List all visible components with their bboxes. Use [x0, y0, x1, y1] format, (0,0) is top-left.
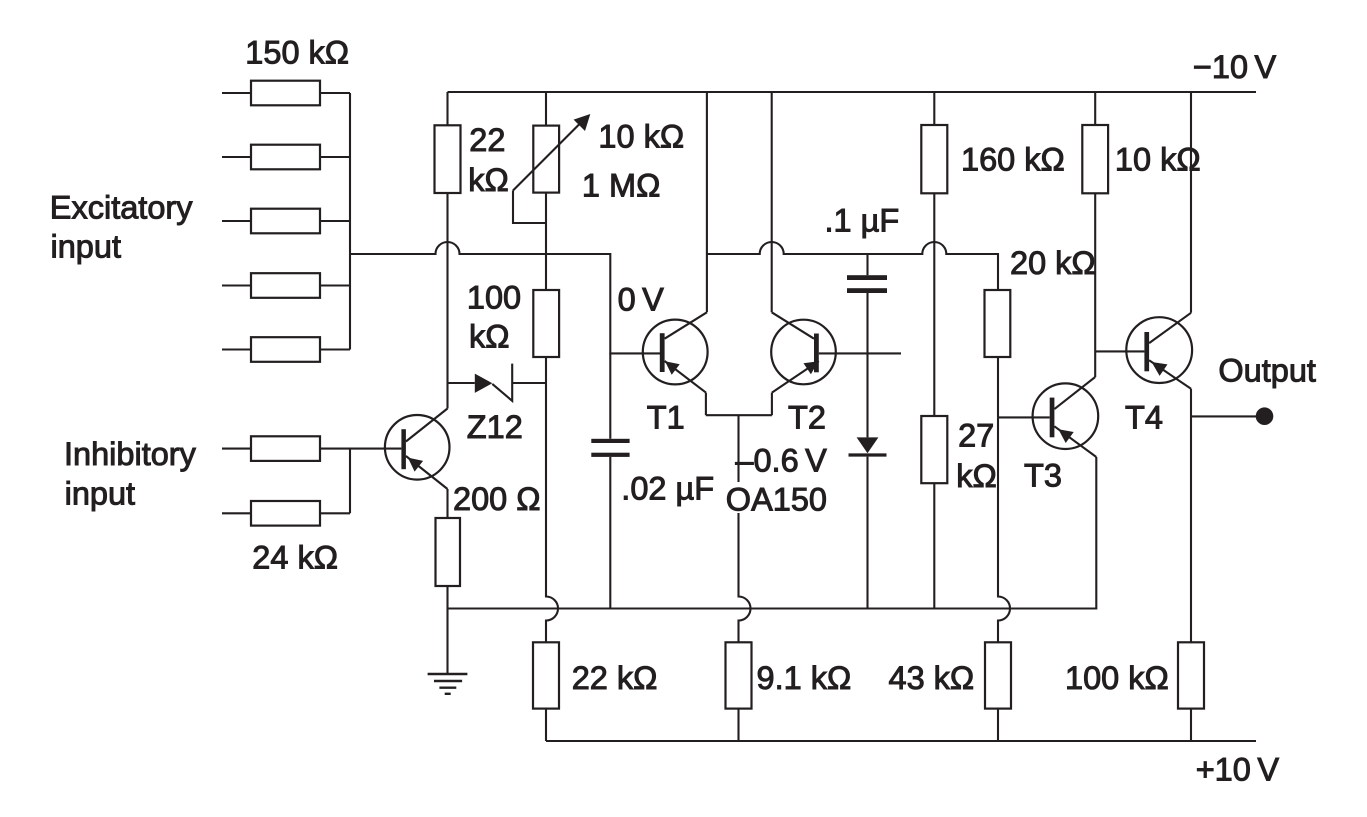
wire: rail to 1M pot: [545, 92, 547, 126]
diode OA150: [849, 437, 887, 455]
svg-text:43 kΩ: 43 kΩ: [889, 660, 975, 696]
wire: T4 base line: [1095, 350, 1144, 352]
label 10 kOhm: [1115, 141, 1201, 177]
wire: diode to bus: [866, 457, 868, 609]
transistor T2 base line: [819, 352, 901, 354]
svg-text:22 kΩ: 22 kΩ: [572, 660, 658, 696]
resistor 150k #2 (excitatory input): [222, 145, 350, 170]
capacitor .02 uF: [591, 439, 629, 609]
label 150 kOhm: [245, 35, 349, 71]
label 43 kOhm: [889, 660, 975, 696]
svg-text:.02 µF: .02 µF: [621, 471, 714, 507]
svg-text:24 kΩ: 24 kΩ: [252, 540, 338, 576]
svg-text:kΩ: kΩ: [956, 458, 997, 494]
label 1 MOhm: [582, 168, 660, 204]
wire: T3 base line: [998, 416, 1050, 418]
transistor T1 collector: [665, 92, 707, 339]
label T4: [1125, 399, 1163, 435]
label 100 kOhm (bottom): [1065, 660, 1169, 696]
transistor T4 base bar: [1144, 332, 1149, 371]
wire: node line to .1uF: [866, 254, 868, 275]
net label +10 V: [1196, 752, 1280, 788]
wire: -10 V supply rail (top): [448, 91, 1257, 93]
transistor T2 body: [771, 320, 836, 385]
resistor 150k #3 (excitatory input): [222, 209, 350, 234]
transistor T1 body: [643, 320, 708, 385]
svg-text:10 kΩ: 10 kΩ: [598, 119, 684, 155]
svg-text:27: 27: [958, 418, 994, 454]
wire: T1 collector node line (hops T2 collector and 160k lines) to 20k: [707, 242, 998, 290]
label T1: [647, 400, 685, 436]
wire: inhibitory input bus: [349, 449, 351, 514]
transistor Q1 emitter: [406, 456, 448, 518]
svg-text:22: 22: [469, 122, 505, 158]
svg-text:input: input: [51, 229, 121, 265]
wire: pot bottom to 100k: [545, 193, 547, 290]
potentiometer arrow: [513, 114, 590, 191]
transistor T3 base bar: [1050, 398, 1055, 438]
resistor 100k (output bias): [1178, 642, 1204, 741]
label 24 kOhm: [252, 540, 338, 576]
potentiometer 1M body: [533, 126, 559, 193]
wire: rail to 22k: [446, 92, 448, 125]
svg-text:Output: Output: [1218, 352, 1316, 388]
wire: excitatory input bus: [349, 93, 351, 350]
wire: T3 base node down to 43k (hops bus): [998, 417, 1010, 642]
wire: emitter tap down to 9.1k (hops bus): [739, 513, 751, 642]
ground symbol: [428, 674, 468, 694]
wire: T1/T2 emitter tie bus: [706, 414, 772, 416]
transistor T4 emitter: [1149, 360, 1191, 642]
svg-text:T2: T2: [788, 400, 826, 436]
wire: 100k bottom to zener node: [545, 357, 547, 383]
resistor 150k #1 (excitatory input): [222, 81, 350, 106]
label Output: [1218, 352, 1316, 388]
wire: 200 Ohm to ground node: [446, 586, 448, 674]
svg-text:T3: T3: [1024, 457, 1062, 493]
transistor T4 collector: [1149, 92, 1191, 343]
svg-text:–0.6 V: –0.6 V: [735, 443, 827, 479]
wire: 22k bottom to Z12 node / collector: [446, 193, 448, 409]
label 10 kOhm (pot section): [598, 119, 684, 155]
resistor 9.1k (bias): [726, 642, 752, 741]
transistor T3 body: [1033, 383, 1099, 449]
resistor 27k: [921, 416, 947, 483]
label 22 kOhm (2 lines): [468, 122, 509, 198]
svg-text:Excitatory: Excitatory: [50, 190, 193, 226]
resistor 150k #5 (excitatory input): [222, 337, 350, 362]
resistor 200 Ohm (emitter): [436, 518, 461, 586]
resistor 160k: [921, 125, 947, 193]
wire: 20k to T3 base node: [997, 357, 999, 417]
resistor 43k (bias): [985, 642, 1011, 741]
transistor T2 collector: [772, 92, 814, 339]
label 100 kOhm (2 lines): [467, 280, 521, 355]
label Inhibitory input: [64, 436, 197, 512]
wire: T1 base node down to .02uF: [609, 353, 611, 438]
label 160 kOhm: [961, 141, 1065, 177]
label .02 uF: [621, 471, 714, 507]
label T3: [1024, 457, 1062, 493]
svg-text:−10 V: −10 V: [1193, 49, 1277, 85]
wire: common bus from ground node to T3 emitter: [448, 457, 1097, 609]
svg-text:.1 µF: .1 µF: [825, 203, 900, 239]
transistor T3 emitter: [1054, 426, 1096, 457]
transistor T2 emitter: [772, 361, 819, 415]
wire: inhibitory bus to Q1 base: [350, 448, 401, 450]
wire: 10k down to T3 collector corner: [1094, 193, 1096, 377]
wire: 160k to 27k: [933, 193, 935, 416]
net label -10 V: [1193, 49, 1277, 85]
label 22 kOhm (bottom): [572, 660, 658, 696]
svg-text:kΩ: kΩ: [469, 319, 510, 355]
svg-text:160 kΩ: 160 kΩ: [961, 141, 1065, 177]
transistor T4 body: [1126, 317, 1192, 383]
svg-text:Z12: Z12: [467, 409, 523, 445]
wire: pot wiper tie-down: [513, 191, 546, 224]
svg-text:input: input: [65, 476, 135, 512]
resistor 24k #1 (inhibitory input): [222, 436, 350, 461]
transistor T1 base bar: [660, 333, 665, 372]
wire: rail to 160k: [933, 92, 935, 125]
svg-text:OA150: OA150: [726, 482, 827, 518]
label -0.6 V with tick: [735, 443, 827, 479]
transistor Q1 collector: [406, 409, 448, 442]
label OA150: [726, 482, 827, 518]
svg-text:20 kΩ: 20 kΩ: [1010, 245, 1096, 281]
svg-text:1 MΩ: 1 MΩ: [582, 168, 660, 204]
zener diode Z12: [448, 364, 547, 401]
resistor 22k (collector load): [435, 125, 461, 193]
transistor T2 base bar: [814, 334, 819, 373]
label T2: [788, 400, 826, 436]
svg-text:100 kΩ: 100 kΩ: [1065, 660, 1169, 696]
transistor Q1 (inhibitory) body: [385, 415, 450, 480]
svg-text:0 V: 0 V: [618, 281, 665, 317]
svg-text:200 Ω: 200 Ω: [453, 481, 541, 517]
wire: zener node down to 22k bottom resistor (hops bus): [546, 383, 558, 642]
transistor T3 collector: [1054, 377, 1095, 409]
resistor 150k #4 (excitatory input): [222, 273, 350, 298]
svg-text:T4: T4: [1125, 399, 1163, 435]
wire: +10 V supply rail (bottom): [546, 740, 1256, 742]
wire: emitter tap down (upper part): [737, 415, 739, 482]
svg-text:10 kΩ: 10 kΩ: [1115, 141, 1201, 177]
svg-text:+10 V: +10 V: [1196, 752, 1280, 788]
resistor 100k (to zener): [533, 290, 559, 357]
transistor Q1 base bar: [401, 429, 406, 469]
capacitor .1 uF: [847, 275, 887, 293]
label 9.1 kOhm: [757, 660, 852, 696]
wire: .1uF to diode: [866, 293, 868, 437]
resistor 20k: [985, 290, 1011, 357]
label 20 kOhm: [1010, 245, 1096, 281]
resistor 24k #2 (inhibitory input): [222, 501, 350, 526]
svg-text:Inhibitory: Inhibitory: [64, 436, 197, 472]
svg-text:150 kΩ: 150 kΩ: [245, 35, 349, 71]
resistor 10k: [1082, 125, 1108, 193]
label Z12: [467, 409, 523, 445]
svg-text:kΩ: kΩ: [468, 162, 509, 198]
wire: excitatory summing line (hops 22k line) to T1 base: [350, 242, 660, 353]
wire: 27k to bus: [933, 483, 935, 608]
label 27 kOhm (2 lines): [956, 418, 997, 495]
label 200 Ohm: [453, 481, 541, 517]
label .1 uF: [825, 203, 900, 239]
label Excitatory input: [50, 190, 193, 265]
resistor 22k (bottom bias): [533, 642, 559, 741]
wire: rail to 10k: [1094, 92, 1096, 125]
svg-text:T1: T1: [647, 400, 685, 436]
svg-text:100: 100: [467, 280, 521, 316]
wire: output line: [1191, 415, 1256, 417]
svg-text:9.1 kΩ: 9.1 kΩ: [757, 660, 852, 696]
output terminal dot: [1256, 407, 1274, 425]
label 0 V: [618, 281, 665, 317]
transistor T1 emitter: [665, 361, 706, 415]
